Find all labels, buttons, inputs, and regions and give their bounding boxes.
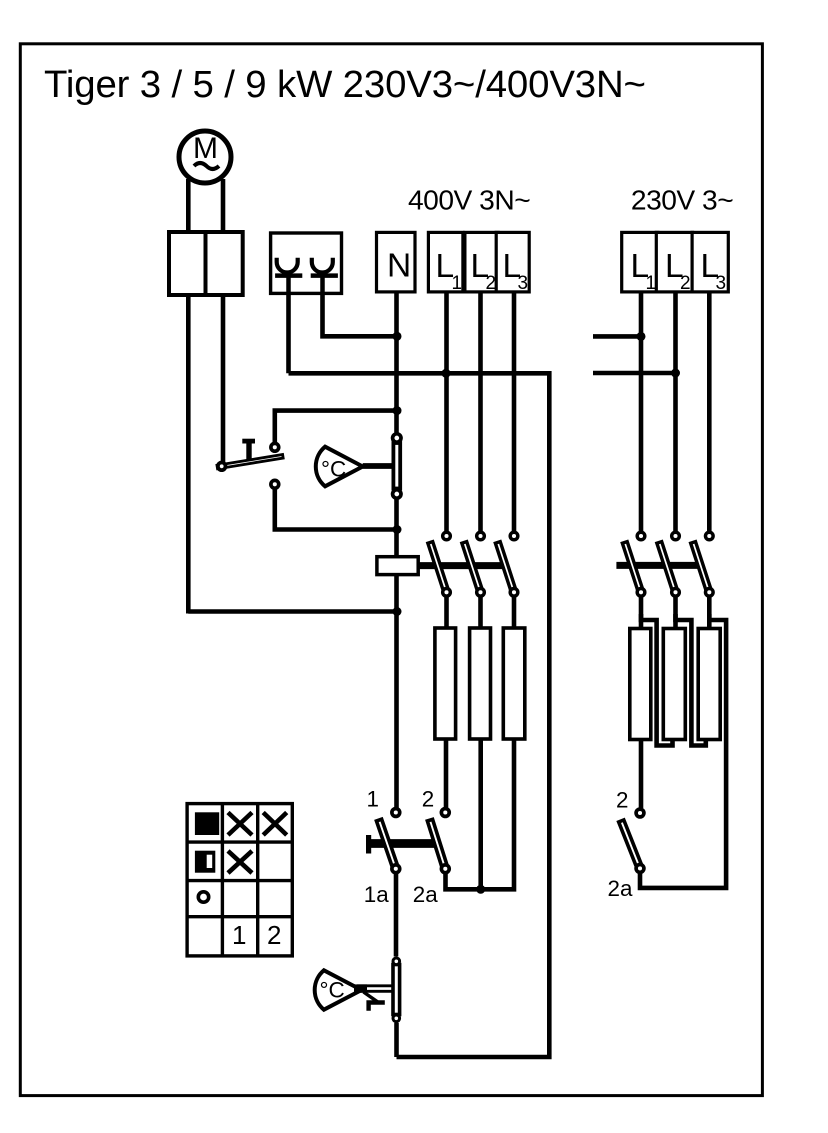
svg-text:2: 2	[422, 787, 434, 812]
svg-text:1: 1	[367, 787, 379, 812]
svg-text:3: 3	[518, 273, 529, 294]
svg-text:2a: 2a	[413, 882, 438, 907]
svg-text:2: 2	[267, 920, 281, 950]
svg-text:2: 2	[616, 788, 628, 813]
svg-text:3: 3	[716, 273, 727, 294]
svg-text:2: 2	[680, 273, 691, 294]
svg-text:M: M	[193, 132, 218, 165]
svg-text:1: 1	[646, 273, 657, 294]
svg-text:1: 1	[232, 920, 246, 950]
svg-text:1: 1	[452, 273, 463, 294]
svg-text:N: N	[387, 248, 411, 285]
svg-text:1a: 1a	[364, 882, 389, 907]
svg-text:°C: °C	[320, 978, 345, 1003]
svg-text:2a: 2a	[608, 876, 633, 901]
svg-text:230V 3~: 230V 3~	[631, 184, 733, 216]
svg-text:°C: °C	[321, 457, 346, 482]
svg-text:400V 3N~: 400V 3N~	[408, 184, 530, 216]
svg-text:Tiger 3 / 5 / 9 kW 230V3~/400V: Tiger 3 / 5 / 9 kW 230V3~/400V3N~	[44, 63, 646, 106]
svg-text:2: 2	[486, 273, 497, 294]
